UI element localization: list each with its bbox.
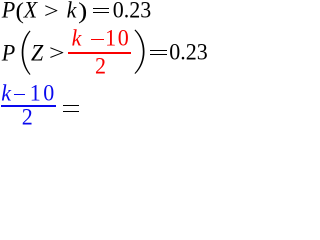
line 1: P (X > k) = 0.23 xyxy=(2,0,15,22)
line 3: (k-10)/2 = xyxy=(1,81,11,105)
line 2: P ( Z > (k-10)/2 ) = 0.23 xyxy=(2,41,15,65)
